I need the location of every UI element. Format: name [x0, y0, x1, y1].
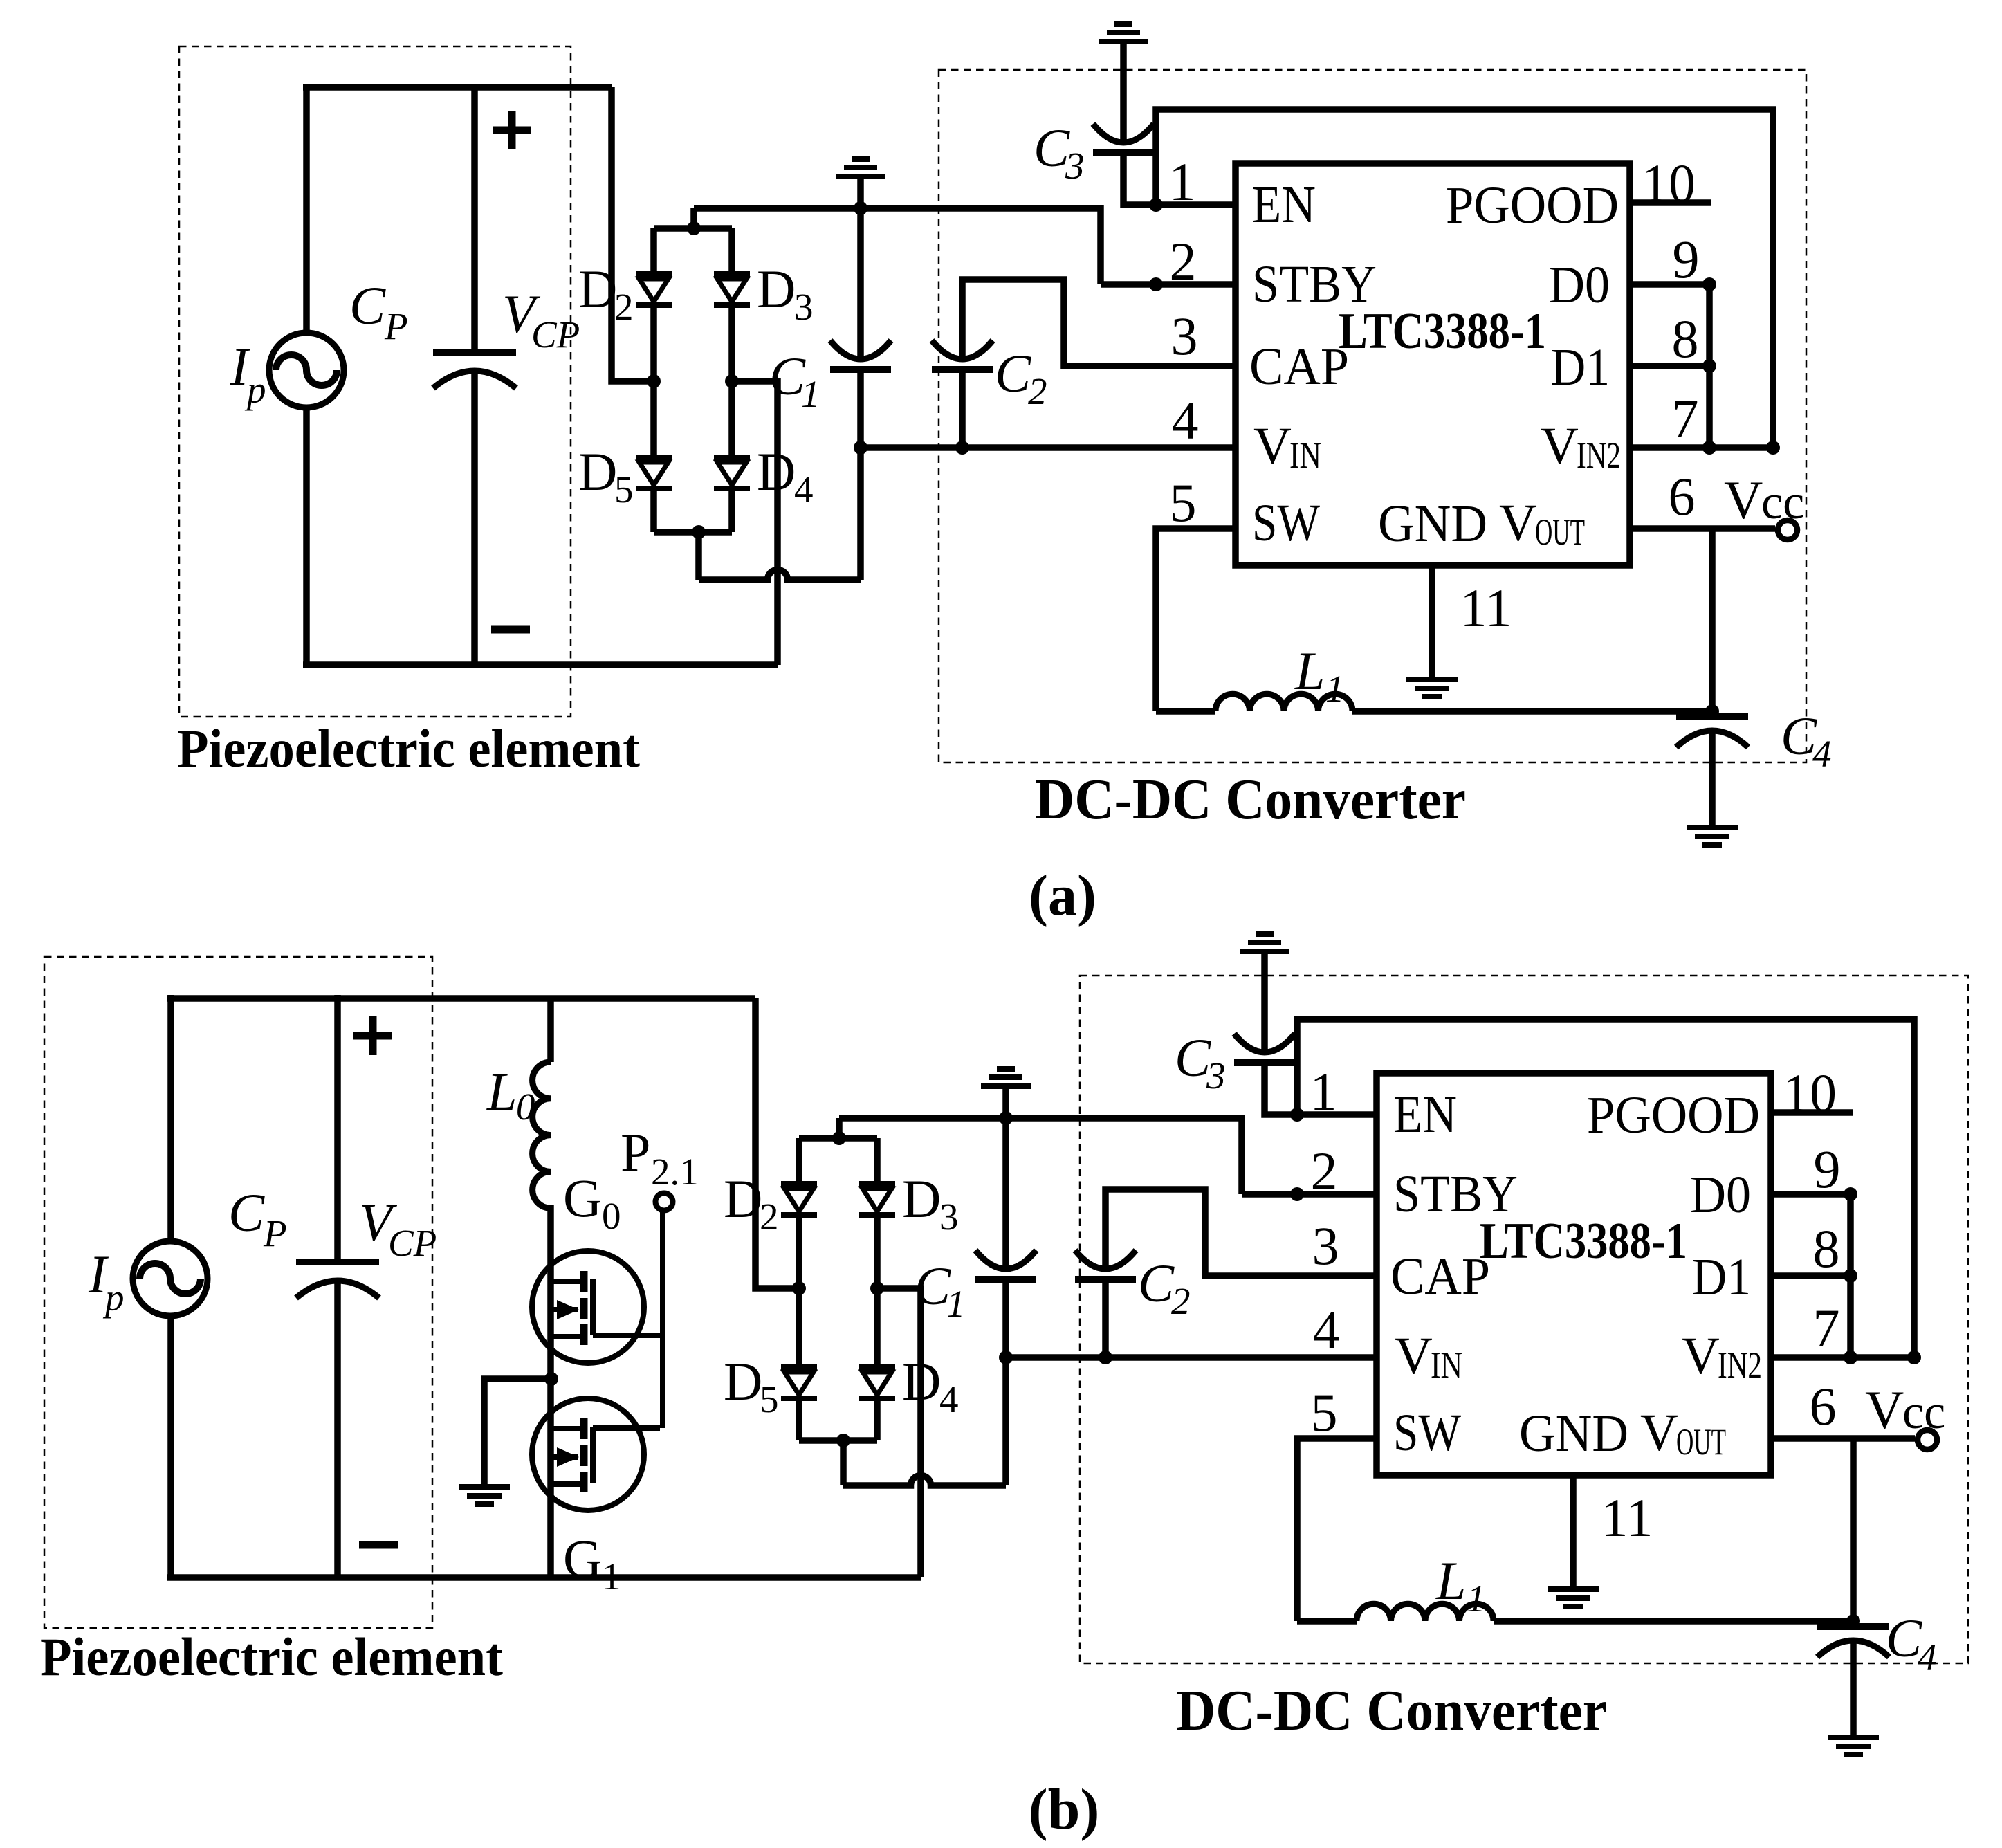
transistor G0 (b) upper MOSFET [532, 1251, 644, 1363]
svg-text:5: 5 [1170, 473, 1197, 533]
wire: (b) VIN net riser [1002, 1357, 1009, 1485]
wire: (b) VOUT to Vcc [1771, 1435, 1915, 1442]
node: (a) VIN2 junction 2 [1766, 441, 1780, 455]
node: (b) VIN2 junction 1 [1844, 1351, 1857, 1364]
wire: (a) bridge left col seg3 [650, 381, 657, 457]
capacitor C1 (b) [975, 1250, 1036, 1269]
node: (a) bridge mid-left junction [647, 374, 661, 388]
inductor L0 (b) [533, 1062, 551, 1208]
svg-text:C: C [349, 275, 386, 336]
capacitor C2 (a) [932, 340, 993, 359]
svg-text:cc: cc [1761, 476, 1804, 529]
svg-text:CAP: CAP [1390, 1247, 1490, 1306]
svg-text:1: 1 [1467, 1577, 1486, 1620]
svg-text:C: C [228, 1182, 265, 1243]
wire: (b) bridge left col seg4 [796, 1398, 802, 1440]
wire: (a) VOUT riser to C4 [1709, 529, 1716, 717]
svg-text:C: C [1138, 1253, 1175, 1313]
label + (a) [493, 127, 531, 134]
wire: (a) CP bottom feed [471, 372, 478, 665]
svg-text:p: p [244, 369, 266, 411]
svg-text:0: 0 [602, 1195, 621, 1237]
wire: (b) mid-right to piezo minus [877, 1288, 921, 1577]
diode D5 (a) [636, 455, 672, 460]
wire: (b) piezo top rail [167, 995, 755, 1002]
wire: (a) bridge right col seg2 [728, 305, 735, 381]
svg-text:2: 2 [614, 286, 634, 328]
svg-text:DC-DC Converter: DC-DC Converter [1035, 767, 1466, 832]
svg-text:0: 0 [516, 1086, 535, 1128]
svg-text:1: 1 [602, 1555, 621, 1598]
node: (b) bridge mid-right junction [870, 1281, 884, 1295]
capacitor CP (a) [433, 349, 516, 356]
wire: (a) VOUT to Vcc [1630, 525, 1775, 532]
wire: (b) CP bottom feed [334, 1282, 341, 1577]
svg-text:cc: cc [1902, 1386, 1945, 1439]
inductor L1 (a) [1215, 694, 1352, 711]
svg-text:8: 8 [1672, 309, 1699, 369]
figure (b): DC-DC converter dashed box [1080, 976, 1968, 1663]
wire: (b) bridge bottom rail [799, 1437, 877, 1444]
wire: (b) piezo bottom rail [167, 1574, 921, 1581]
svg-text:V: V [1724, 470, 1763, 530]
wire: (a) bridge bottom stub down [695, 532, 702, 580]
wire: (a) D1 stub [1630, 363, 1709, 369]
wire: (b) bridge left col seg1 [796, 1138, 802, 1184]
svg-text:PGOOD: PGOOD [1446, 176, 1619, 235]
svg-text:D: D [724, 1351, 762, 1411]
node: (b) bridge top junction [832, 1131, 846, 1145]
svg-text:Piezoelectric element: Piezoelectric element [40, 1627, 503, 1687]
svg-text:3: 3 [1206, 1054, 1226, 1097]
node: (a) STBY junction dot [1149, 277, 1163, 291]
svg-text:STBY: STBY [1393, 1165, 1518, 1223]
node: (b) VIN rail at C1 [999, 1351, 1013, 1364]
terminal P2.1 (b) [656, 1193, 673, 1211]
svg-text:7: 7 [1813, 1298, 1840, 1358]
IC U1 LTC3388-1 (a): body [1236, 163, 1630, 565]
wire: (a) bridge bottom rail [654, 529, 732, 536]
IC U2 LTC3388-1 (b): body [1377, 1073, 1771, 1475]
svg-text:11: 11 [1601, 1488, 1653, 1548]
svg-text:D: D [902, 1169, 941, 1229]
node: (b) ground junction on top net [999, 1111, 1013, 1125]
node: (a) EN junction [1149, 198, 1163, 212]
node: (a) VIN rail at C1 [854, 441, 867, 455]
node: (a) ground junction on top net [854, 201, 867, 215]
svg-text:5: 5 [760, 1378, 779, 1420]
wire: (b) switch branch through-line [547, 1205, 554, 1577]
svg-text:D0: D0 [1690, 1166, 1751, 1224]
svg-text:1: 1 [801, 373, 820, 415]
capacitor C4 (b) [1817, 1623, 1889, 1630]
svg-text:6: 6 [1669, 466, 1696, 527]
ground: (b) C4 ground [1828, 1735, 1879, 1740]
wire: (a) piezo left branch upper [303, 84, 310, 333]
svg-text:7: 7 [1672, 388, 1699, 448]
diode D2 (a) [636, 271, 672, 277]
wire: (a) top net horizontal [694, 208, 1101, 284]
wire: (b) PGOOD stub [1771, 1109, 1853, 1116]
svg-text:(a): (a) [1029, 863, 1096, 928]
svg-text:D1: D1 [1692, 1248, 1751, 1306]
svg-text:3: 3 [794, 286, 814, 328]
svg-text:EN: EN [1252, 176, 1316, 234]
figure (a): piezoelectric element dashed box [179, 46, 571, 717]
ground: (a) GND pin ground [1406, 677, 1458, 682]
capacitor C3 (a) [1093, 124, 1154, 143]
wire: (b) mid node to ground [484, 1379, 551, 1484]
svg-text:p: p [102, 1277, 125, 1319]
svg-text:V: V [1395, 1327, 1433, 1385]
svg-text:V: V [1682, 1327, 1720, 1385]
wire: (b) bridge right col seg3 [874, 1288, 881, 1367]
diode D5 (b) [781, 1364, 817, 1370]
svg-text:1: 1 [1325, 668, 1345, 710]
svg-text:D: D [757, 259, 796, 319]
svg-text:4: 4 [1918, 1636, 1937, 1678]
current source Ip (a) [269, 333, 344, 408]
wire: (a) bridge right col seg1 [728, 228, 735, 274]
svg-text:(b): (b) [1029, 1777, 1100, 1842]
wire: (a) bridge top rail [654, 225, 732, 232]
wire: (a) C4 to ground [1709, 731, 1716, 825]
node: (a) VIN2 junction 1 [1702, 441, 1716, 455]
wire: (a) bridge left col seg2 [650, 305, 657, 381]
svg-text:6: 6 [1810, 1376, 1837, 1436]
wire: (b) bridge top stub up [836, 1118, 843, 1138]
diode D4 (a) [714, 455, 750, 460]
svg-text:1: 1 [1310, 1061, 1337, 1122]
wire: (b) bridge right col seg4 [874, 1398, 881, 1440]
wire: (a) piezo bottom rail [303, 661, 778, 668]
wire: (b) over-the-top wire [1297, 1019, 1914, 1357]
wire: (b) C2 top jog to CAP pin [1105, 1189, 1377, 1276]
svg-text:CP: CP [388, 1222, 437, 1264]
wire: (b) VOUT riser to C4 [1850, 1438, 1857, 1627]
wire: (b) CP top feed [334, 995, 341, 1259]
svg-text:3: 3 [939, 1196, 959, 1238]
node: (b) bridge mid-left junction [792, 1281, 806, 1295]
svg-text:V: V [1640, 1404, 1678, 1462]
wire: (b) gate bus from P2.1 [660, 1211, 665, 1428]
wire: (b) C1 top feed [1002, 1118, 1009, 1270]
svg-text:L: L [1435, 1550, 1466, 1611]
wire: (b) bridge right col seg1 [874, 1138, 881, 1184]
wire: (a) L1 left lead [1156, 708, 1215, 715]
node: (b) source-drain mid junction [544, 1372, 558, 1386]
svg-text:IN2: IN2 [1718, 1344, 1762, 1386]
wire: (b) bridge bottom stub down [840, 1440, 847, 1485]
wire: (a) bridge left col seg1 [650, 228, 657, 274]
wire: (a) mid-right to piezo minus [732, 381, 778, 665]
svg-text:STBY: STBY [1252, 255, 1377, 313]
wire: (a) bottom hop wire to VIN net [699, 570, 861, 580]
wire: (b) C4 to ground [1850, 1641, 1857, 1735]
wire: (b) D0 stub [1771, 1191, 1851, 1198]
diode D3 (a) [714, 271, 750, 277]
wire: (a) C2 top jog to CAP pin [962, 280, 1236, 366]
svg-text:2.1: 2.1 [651, 1151, 699, 1193]
svg-text:4: 4 [1313, 1300, 1340, 1360]
svg-text:GND: GND [1519, 1405, 1628, 1463]
ground: (b) GND pin ground [1548, 1586, 1599, 1592]
wire: (b) bridge left col seg3 [796, 1288, 802, 1367]
wire: (b) L1 left lead [1297, 1618, 1357, 1625]
wire: (a) C1 top feed [857, 208, 864, 360]
wire: (a) VIN rail [861, 444, 1236, 451]
svg-text:D0: D0 [1549, 256, 1610, 314]
svg-text:1: 1 [1169, 152, 1196, 212]
svg-text:8: 8 [1813, 1218, 1840, 1279]
svg-text:OUT: OUT [1676, 1421, 1726, 1463]
wire: (a) L1 right lead [1352, 708, 1712, 715]
ground: (b) top net ground [981, 1083, 1031, 1089]
svg-text:P: P [621, 1122, 650, 1182]
node: (a) VIN rail at C2 [955, 441, 969, 455]
wire: (b) C2 bottom feed [1102, 1279, 1109, 1357]
svg-text:9: 9 [1814, 1139, 1841, 1199]
wire: (a) PGOOD stub [1630, 199, 1711, 206]
ground: (a) top net ground [836, 174, 885, 179]
node: (a) C4 junction [1705, 704, 1719, 718]
svg-text:D: D [578, 259, 617, 319]
svg-text:SW: SW [1393, 1404, 1461, 1462]
svg-text:4: 4 [1172, 390, 1199, 450]
wire: (b) C1 bottom feed [1002, 1279, 1009, 1357]
wire: (b) D1 stub [1771, 1272, 1851, 1279]
capacitor CP (b) [296, 1259, 379, 1265]
svg-text:EN: EN [1393, 1086, 1457, 1144]
svg-text:2: 2 [1311, 1141, 1338, 1201]
ground: (a) C3 ground [1099, 39, 1148, 44]
wire: (a) C3 to EN [1123, 153, 1236, 205]
ground: (b) C3 ground [1240, 949, 1289, 954]
terminal Vcc (b) [1918, 1430, 1937, 1449]
svg-text:4: 4 [1812, 733, 1832, 775]
svg-text:2: 2 [1171, 1280, 1191, 1322]
svg-text:V: V [1499, 494, 1537, 552]
node: (a) bridge mid-right junction [725, 374, 739, 388]
svg-text:D: D [578, 441, 617, 502]
svg-text:5: 5 [614, 468, 634, 511]
svg-text:CP: CP [531, 313, 580, 356]
wire: (b) bridge right col seg2 [874, 1215, 881, 1288]
svg-text:D: D [724, 1169, 762, 1229]
figure (a): DC-DC converter dashed box [939, 70, 1806, 762]
capacitor C1 (a) [830, 340, 891, 359]
node: (b) D0 junction [1844, 1187, 1857, 1201]
svg-text:DC-DC Converter: DC-DC Converter [1176, 1678, 1607, 1743]
wire: (a) SW wire [1156, 529, 1236, 711]
svg-text:4: 4 [794, 468, 814, 511]
wire: (b) C3 to EN [1265, 1063, 1377, 1115]
capacitor C4 (a) [1676, 713, 1748, 720]
wire: (a) piezo+ to bridge mid-left [612, 87, 650, 381]
wire: (a) C1 bottom feed [857, 369, 864, 448]
svg-text:SW: SW [1252, 494, 1320, 552]
wire: (a) C2 bottom feed [959, 369, 966, 448]
svg-text:2: 2 [1170, 231, 1197, 291]
svg-text:V: V [1253, 417, 1292, 475]
wire: (b) bottom hop wire to VIN net [843, 1476, 1006, 1486]
svg-text:L: L [486, 1061, 517, 1122]
node: (b) D1 junction [1844, 1269, 1857, 1283]
label + (b) [353, 1032, 392, 1040]
node: (a) D1 junction [1702, 359, 1716, 373]
wire: (a) D0 stub [1630, 281, 1709, 288]
wire: (a) CP top feed [471, 84, 478, 349]
node: (a) D0 junction [1702, 277, 1716, 291]
wire: (b) top net horizontal [839, 1118, 1242, 1194]
node: (b) C4 junction [1846, 1614, 1860, 1628]
node: (a) bridge top junction [687, 221, 701, 235]
wire: (b) L0 branch top [547, 998, 554, 1062]
wire: (b) GND pin 11 [1570, 1475, 1577, 1586]
wire: (b) SW wire [1297, 1438, 1377, 1621]
terminal Vcc (a) [1778, 520, 1797, 540]
svg-text:C: C [995, 343, 1031, 403]
svg-text:P: P [384, 305, 408, 347]
node: (a) bridge bottom junction [692, 525, 706, 539]
capacitor C3 (b) [1234, 1034, 1295, 1052]
diode D2 (b) [781, 1181, 817, 1187]
wire: (a) VIN net riser [857, 448, 864, 580]
wire: (a) bridge top stub up [690, 208, 697, 228]
svg-text:3: 3 [1065, 145, 1085, 187]
wire: (b) piezo left branch lower [167, 1316, 174, 1577]
diode D3 (b) [859, 1181, 895, 1187]
figure (b): piezoelectric element dashed box [44, 957, 432, 1628]
capacitor C2 (b) [1075, 1250, 1136, 1269]
wire: (b) piezo+ to bridge mid-left [755, 998, 796, 1288]
node: (b) EN junction [1290, 1108, 1304, 1122]
ground: (a) C4 ground [1687, 825, 1738, 830]
svg-text:OUT: OUT [1535, 511, 1585, 553]
svg-text:5: 5 [1311, 1382, 1338, 1443]
svg-text:3: 3 [1312, 1216, 1339, 1276]
node: (b) VIN2 junction 2 [1907, 1351, 1921, 1364]
wire: (a) piezo left branch lower [303, 408, 310, 665]
diode D4 (b) [859, 1364, 895, 1370]
wire: (a) piezo top rail [303, 84, 612, 91]
wire: (b) bridge top rail [799, 1135, 877, 1142]
wire: (b) D0-D1-VIN2 bus [1847, 1194, 1854, 1357]
wire: (a) bridge right col seg4 [728, 488, 735, 532]
svg-text:11: 11 [1460, 578, 1512, 638]
svg-text:P: P [263, 1212, 287, 1254]
svg-text:2: 2 [760, 1196, 779, 1238]
wire: (b) VIN2 wire [1771, 1354, 1914, 1361]
wire: (b) STBY wire [1242, 1191, 1377, 1198]
wire: (a) VIN2 wire [1630, 444, 1773, 451]
node: (b) bridge bottom junction [836, 1434, 850, 1447]
svg-text:GND: GND [1378, 495, 1487, 553]
wire: (a) bridge left col seg4 [650, 488, 657, 532]
wire: (a) STBY wire [1101, 281, 1236, 288]
svg-text:1: 1 [946, 1283, 966, 1325]
svg-text:IN2: IN2 [1577, 434, 1621, 476]
svg-text:V: V [1541, 417, 1579, 475]
svg-text:2: 2 [1028, 370, 1047, 412]
node: (b) VIN rail at C2 [1099, 1351, 1112, 1364]
wire: (b) bridge left col seg2 [796, 1215, 802, 1288]
svg-text:L: L [1294, 641, 1325, 701]
wire: (a) GND pin 11 [1429, 565, 1435, 677]
svg-text:9: 9 [1673, 229, 1700, 289]
svg-text:4: 4 [939, 1378, 959, 1420]
transistor G1 (b) lower MOSFET [532, 1398, 644, 1510]
svg-text:G: G [563, 1528, 602, 1589]
svg-text:CAP: CAP [1249, 338, 1349, 396]
svg-text:IN: IN [1289, 434, 1321, 476]
wire: (b) piezo left branch upper [167, 995, 174, 1241]
wire: (b) L1 right lead [1494, 1618, 1853, 1625]
svg-text:IN: IN [1431, 1344, 1462, 1386]
label - (b) [359, 1541, 398, 1549]
svg-text:PGOOD: PGOOD [1587, 1086, 1760, 1144]
svg-text:V: V [1865, 1380, 1904, 1440]
node: (b) STBY junction dot [1290, 1187, 1304, 1201]
svg-text:Piezoelectric element: Piezoelectric element [177, 718, 640, 778]
label - (a) [491, 626, 530, 634]
svg-text:3: 3 [1171, 306, 1198, 366]
wire: (a) bridge right col seg3 [728, 381, 735, 457]
svg-text:G: G [563, 1168, 602, 1228]
wire: (a) over-the-top wire [1156, 109, 1773, 448]
svg-text:D1: D1 [1551, 338, 1610, 396]
current source Ip (b) [133, 1241, 208, 1316]
ground: (b) MOSFET ground [459, 1484, 510, 1490]
wire: (a) D0-D1-VIN2 bus [1706, 284, 1713, 448]
wire: (b) VIN rail [1006, 1354, 1377, 1361]
inductor L1 (b) [1357, 1604, 1494, 1621]
